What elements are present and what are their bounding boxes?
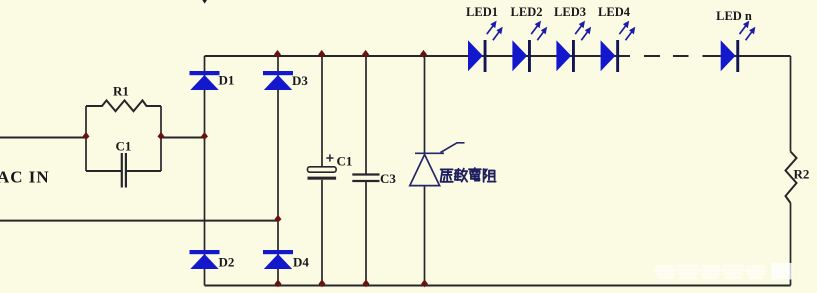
svg-text:D1: D1 [219,73,235,88]
svg-text:AC IN: AC IN [0,168,50,187]
svg-text:R2: R2 [794,167,810,182]
svg-text:D2: D2 [219,255,235,270]
svg-text:D3: D3 [292,73,308,88]
svg-text:LED2: LED2 [511,5,543,19]
svg-text:R1: R1 [113,84,129,99]
svg-text:LED4: LED4 [598,5,631,19]
svg-text:LED1: LED1 [466,5,498,19]
svg-text:C1: C1 [116,139,132,154]
svg-text:D4: D4 [293,255,309,270]
svg-text:C1: C1 [337,154,353,169]
svg-text:LED3: LED3 [554,5,586,19]
svg-text:LED n: LED n [716,9,752,23]
svg-text:C3: C3 [380,171,396,186]
